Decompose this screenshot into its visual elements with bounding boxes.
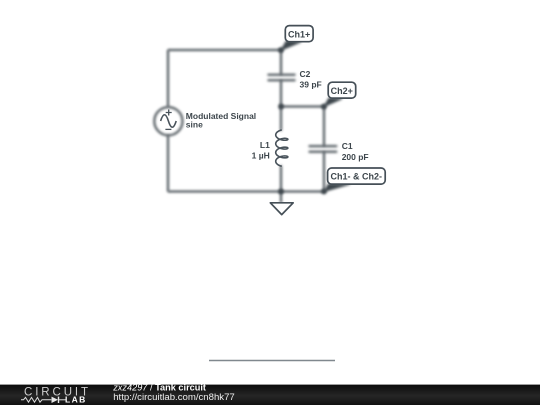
wire left rail lower <box>167 135 169 191</box>
voltage source V1 (Modulated Signal sine) <box>154 107 182 135</box>
wire left rail upper <box>167 50 169 107</box>
inductor L1 <box>276 130 288 166</box>
wire ground stub <box>280 192 282 203</box>
logo resistor zigzag and diode <box>21 397 66 403</box>
label C1 200 pF <box>342 141 369 162</box>
wire bottom rail <box>168 191 324 193</box>
divider line <box>209 360 335 362</box>
wire C1 top lead <box>323 107 325 147</box>
flag Ch1- & Ch2- <box>324 168 385 192</box>
wire top rail <box>168 49 281 51</box>
wire C2 bottom lead <box>280 80 282 106</box>
flag Ch1+ <box>281 26 313 51</box>
svg-text:39 pF: 39 pF <box>300 80 322 90</box>
label Modulated Signal sine <box>186 111 256 130</box>
svg-text:LAB: LAB <box>65 395 87 405</box>
logo LAB wordmark <box>65 395 87 405</box>
wire C1 bottom lead <box>323 152 325 192</box>
svg-text:C1: C1 <box>342 141 353 151</box>
flag Ch2+ <box>324 82 356 106</box>
ground <box>270 203 293 215</box>
svg-text:sine: sine <box>186 120 203 130</box>
svg-text:zxz4297 / Tank circuit: zxz4297 / Tank circuit <box>112 383 206 393</box>
node Ch1+ junction dot <box>278 47 284 53</box>
node ground junction dot <box>278 189 284 195</box>
logo CIRCUIT wordmark <box>24 386 91 398</box>
footer url text <box>113 392 235 403</box>
capacitor C1 <box>309 146 338 152</box>
wire L1 top lead <box>280 107 283 130</box>
svg-text:1 µH: 1 µH <box>252 150 270 160</box>
svg-text:Ch1+: Ch1+ <box>288 29 310 39</box>
wire mid rail <box>281 106 324 108</box>
wire C2 top lead <box>280 50 282 75</box>
footer title text <box>112 383 206 393</box>
footer bar <box>0 385 540 405</box>
svg-text:Ch1- & Ch2-: Ch1- & Ch2- <box>331 172 383 182</box>
svg-text:Ch2+: Ch2+ <box>331 86 353 96</box>
label C2 39 pF <box>300 69 322 90</box>
svg-text:C2: C2 <box>300 69 311 79</box>
svg-text:L1: L1 <box>260 140 270 150</box>
wire L1 bottom lead <box>280 166 283 191</box>
node Ch2+ junction dot <box>321 104 327 110</box>
capacitor C2 <box>268 75 296 81</box>
node Ch1-Ch2- junction dot <box>321 189 327 195</box>
svg-text:200 pF: 200 pF <box>342 152 369 162</box>
node mid-left junction dot <box>278 104 284 110</box>
label L1 1 uH <box>252 140 270 160</box>
svg-text:http://circuitlab.com/cn8hk77: http://circuitlab.com/cn8hk77 <box>113 392 235 403</box>
